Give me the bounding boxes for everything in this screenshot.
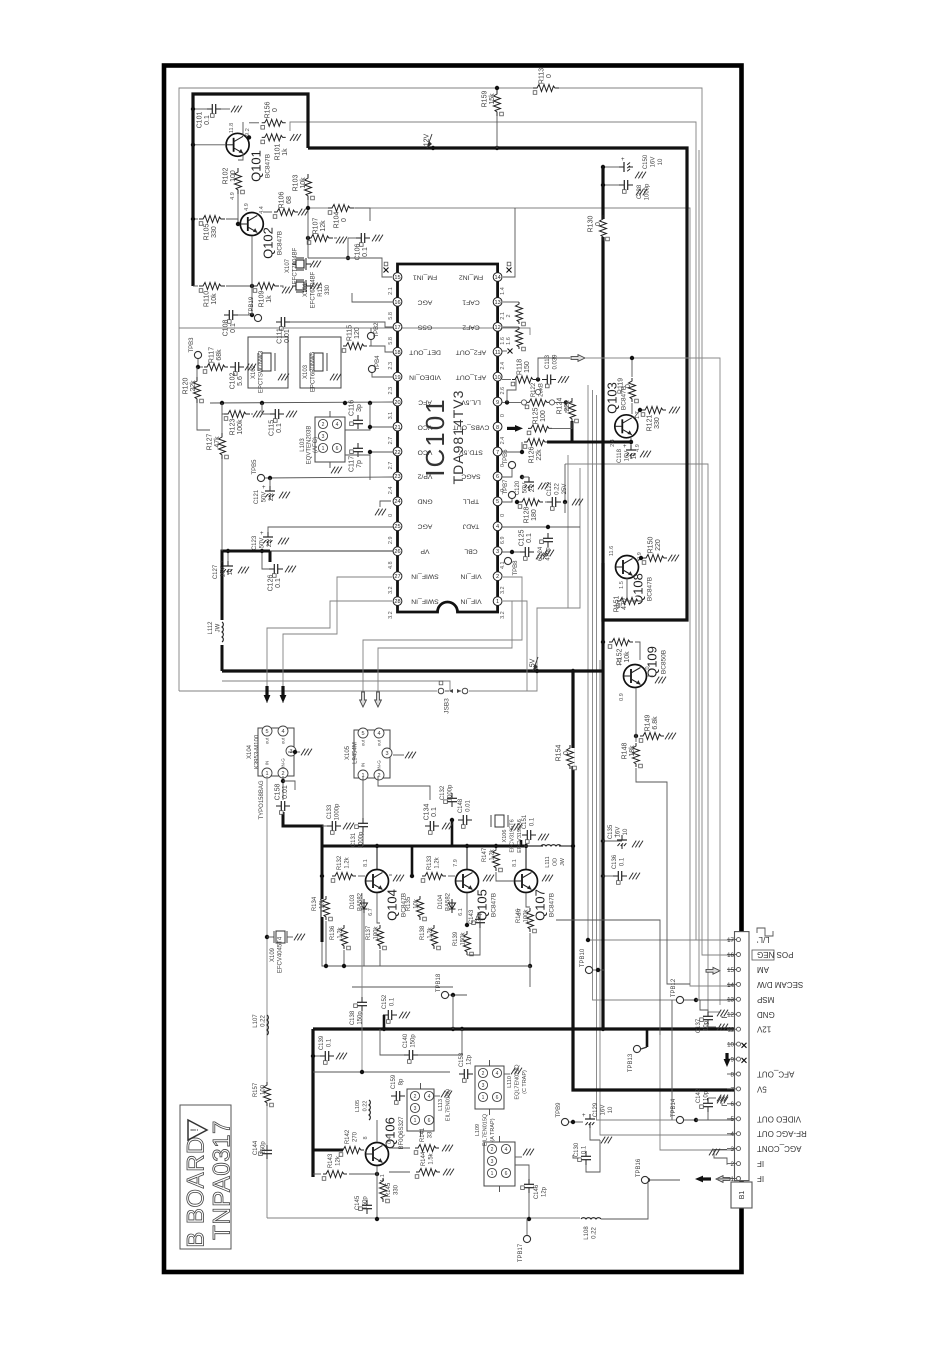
svg-text:R107: R107	[313, 218, 320, 235]
resistor R134 10k	[322, 899, 331, 917]
svg-text:R126: R126	[529, 447, 536, 464]
IC101 pin 8 CVBS_OUT	[493, 422, 502, 431]
capacitor C130 0.1	[585, 1151, 587, 1156]
svg-text:330: 330	[654, 417, 661, 429]
svg-text:R104: R104	[334, 212, 341, 229]
svg-text:22p: 22p	[476, 911, 482, 922]
svg-text:BC850B: BC850B	[661, 650, 668, 674]
IC101 pin 22 VCO	[393, 447, 402, 456]
svg-text:21: 21	[394, 425, 400, 431]
svg-text:C140: C140	[403, 1033, 409, 1048]
svg-text:B BOARD: B BOARD	[183, 1136, 210, 1248]
svg-text:C151: C151	[522, 814, 528, 829]
svg-text:2.4: 2.4	[500, 437, 506, 445]
wire SWIF pin28 loop	[267, 601, 392, 703]
svg-text:0.22: 0.22	[260, 1015, 266, 1027]
capacitor C125 0.1	[520, 551, 525, 553]
resistor R133 1.2k	[425, 872, 443, 881]
svg-text:1.5: 1.5	[617, 658, 623, 666]
resistor R121 330	[645, 406, 663, 415]
filter X102 EPCTSW7NW3	[248, 337, 288, 388]
resistor R132 1.2k	[335, 872, 353, 881]
svg-text:1.2k: 1.2k	[434, 856, 440, 868]
svg-text:2.2: 2.2	[530, 483, 536, 492]
svg-text:5.8: 5.8	[388, 337, 394, 345]
title block B BOARD TNPA0317	[180, 1105, 231, 1249]
wire to FM_IN1	[308, 258, 392, 277]
bus junction dots	[601, 1027, 605, 1031]
svg-text:R150: R150	[648, 537, 655, 554]
svg-text:TPB10: TPB10	[580, 948, 586, 967]
svg-text:STD.5V: STD.5V	[459, 449, 483, 456]
svg-text:2.4: 2.4	[388, 487, 394, 495]
svg-text:1k: 1k	[266, 295, 273, 303]
svg-text:EIL7EN015Q: EIL7EN015Q	[482, 1113, 488, 1146]
wire pin3 AGC_CONT line	[660, 1035, 734, 1150]
resistor R125 100	[531, 424, 549, 433]
svg-text:2.2: 2.2	[267, 538, 273, 547]
svg-text:12: 12	[494, 325, 500, 331]
svg-text:33: 33	[427, 1131, 433, 1138]
svg-text:1.2k: 1.2k	[337, 926, 343, 938]
svg-text:+: +	[260, 531, 264, 537]
arrow into pin9	[724, 1059, 731, 1067]
svg-text:L109: L109	[475, 1124, 481, 1136]
capacitor C102 5.6	[230, 366, 235, 368]
svg-text:R109: R109	[259, 291, 266, 308]
wire L108 to TPB16	[601, 1180, 648, 1219]
svg-text:TPB19: TPB19	[249, 296, 255, 315]
X104 ground pin3	[288, 751, 300, 753]
diode D103 BA582	[363, 899, 365, 913]
arrows to pin1 IF	[695, 1176, 703, 1183]
svg-text:R127: R127	[207, 434, 214, 451]
svg-text:0.1: 0.1	[362, 247, 369, 257]
resistor R135 10k	[416, 899, 425, 917]
thick rail from C150 to Q108	[601, 167, 604, 620]
capacitor C151 0.1	[522, 834, 527, 836]
inductor L111	[524, 845, 543, 847]
svg-text:0.22: 0.22	[591, 1227, 597, 1239]
wire y208 loop	[308, 208, 734, 986]
capacitor C133 1000p	[327, 825, 332, 827]
svg-text:R124: R124	[557, 398, 564, 415]
svg-text:6: 6	[336, 446, 339, 452]
svg-text:10k: 10k	[300, 177, 307, 189]
svg-text:8p: 8p	[398, 1078, 404, 1085]
svg-text:15: 15	[394, 275, 400, 281]
svg-text:0.9: 0.9	[619, 693, 625, 701]
svg-text:R159: R159	[482, 91, 489, 108]
wire X104 pin1 chain down	[266, 776, 268, 1218]
svg-text:1000p: 1000p	[358, 831, 364, 848]
connector pin 10	[727, 1043, 737, 1045]
ground at pin3 boxed	[714, 1150, 727, 1165]
capacitor C139 0.1	[320, 1055, 325, 1057]
svg-text:X104: X104	[247, 744, 253, 759]
test point TPB14	[676, 1116, 683, 1123]
svg-text:SWIF_IN: SWIF_IN	[411, 598, 439, 605]
svg-text:Q102: Q102	[261, 227, 276, 259]
svg-text:8.1: 8.1	[512, 859, 518, 867]
resistor R119 0	[628, 381, 637, 399]
signal arrows into X104	[264, 695, 271, 703]
IC101 pin 25 AGC	[393, 522, 402, 531]
svg-text:4.9: 4.9	[635, 444, 641, 452]
svg-text:C108: C108	[223, 320, 230, 337]
svg-text:7: 7	[731, 1086, 735, 1093]
ground R107 right	[336, 237, 340, 244]
svg-text:L107: L107	[253, 1014, 259, 1028]
svg-text:15: 15	[727, 967, 734, 974]
wire jumper line y691	[179, 690, 437, 692]
IC101 pin 15 FM_IN1	[393, 273, 402, 282]
svg-text:R148: R148	[622, 743, 629, 760]
svg-text:R141: R141	[420, 1127, 426, 1142]
svg-text:0.1: 0.1	[581, 1145, 587, 1154]
svg-text:16V: 16V	[220, 567, 226, 578]
wire VIF pin2 loop	[363, 577, 522, 707]
svg-text:C130: C130	[574, 1142, 580, 1157]
transistor Q105	[456, 870, 479, 893]
svg-text:TPB7: TPB7	[503, 479, 509, 495]
svg-text:R154: R154	[556, 745, 563, 762]
resistor R146 100k	[526, 911, 535, 929]
svg-text:4: 4	[496, 524, 499, 530]
svg-text:22: 22	[394, 450, 400, 456]
filter X109 EFCV4045T4	[265, 935, 269, 939]
svg-text:0.22: 0.22	[554, 483, 560, 495]
svg-text:5V: 5V	[756, 1084, 766, 1093]
svg-text:!: !	[189, 1128, 201, 1131]
capacitor C143 22p	[479, 914, 481, 919]
svg-text:BC847B: BC847B	[491, 893, 498, 917]
ground at pin12	[717, 1010, 721, 1017]
IC101 pin 16 AGC	[393, 298, 402, 307]
svg-text:22k: 22k	[190, 380, 197, 392]
svg-text:8: 8	[496, 425, 499, 431]
svg-text:3: 3	[385, 751, 388, 757]
svg-text:L112: L112	[208, 621, 214, 635]
svg-text:3: 3	[491, 1159, 494, 1165]
capacitor C127 16V 10 electrolytic	[227, 561, 229, 566]
svg-text:9: 9	[496, 400, 499, 406]
svg-text:10p: 10p	[703, 1020, 709, 1031]
svg-text:25V: 25V	[562, 484, 568, 495]
trap filter L109 EIL7EN015Q	[484, 1142, 515, 1186]
wire pin4 RF-AGC line	[600, 660, 734, 1135]
svg-text:8: 8	[731, 1071, 735, 1078]
svg-text:2.4: 2.4	[610, 439, 616, 447]
wire y403 to pin20 AFC	[210, 402, 393, 403]
svg-text:R136: R136	[330, 925, 336, 940]
svg-text:3: 3	[322, 434, 325, 440]
connector pin 5 VIDEO OUT	[727, 1118, 737, 1120]
svg-text:5: 5	[265, 729, 268, 735]
resistor R142 270	[343, 1146, 361, 1155]
svg-text:out: out	[265, 737, 270, 744]
svg-text:12p: 12p	[466, 1054, 472, 1065]
resistor R123 100k	[228, 410, 246, 419]
thick C158 branch	[283, 812, 322, 942]
wire C122 cluster loop	[567, 455, 569, 608]
svg-text:R134: R134	[312, 896, 318, 911]
svg-text:10: 10	[608, 1106, 614, 1113]
svg-text:R119: R119	[618, 378, 625, 394]
svg-text:1000p: 1000p	[334, 803, 340, 820]
svg-text:26: 26	[394, 549, 400, 555]
svg-text:R132: R132	[337, 855, 343, 870]
svg-text:C127: C127	[213, 564, 219, 579]
svg-text:1.2k: 1.2k	[489, 848, 495, 860]
svg-text:IN-G: IN-G	[377, 760, 382, 770]
resistor R104 0	[332, 204, 350, 213]
svg-text:0: 0	[341, 218, 348, 222]
svg-text:100: 100	[260, 1084, 266, 1095]
svg-text:150p: 150p	[362, 1196, 368, 1210]
svg-text:C142: C142	[696, 1088, 702, 1103]
capacitor pin13 CAF1 network	[503, 301, 519, 303]
svg-text:OD: OD	[552, 858, 558, 866]
svg-text:TNPA0317: TNPA0317	[209, 1120, 236, 1240]
svg-text:23: 23	[394, 474, 400, 480]
capacitor C145 150p	[366, 1200, 368, 1205]
wire mid bundle x588	[587, 385, 589, 940]
svg-text:1.6: 1.6	[506, 337, 512, 345]
filter X101 EFCT6504BF	[292, 285, 296, 287]
IC101 pin 3 CBL	[493, 547, 502, 556]
svg-text:0: 0	[645, 666, 651, 669]
svg-text:10: 10	[228, 568, 234, 575]
svg-text:24: 24	[394, 499, 400, 505]
svg-text:2.3: 2.3	[388, 387, 394, 395]
svg-text:CAF2: CAF2	[462, 324, 480, 331]
svg-text:IN: IN	[265, 761, 270, 766]
test point TPB6	[508, 461, 515, 468]
svg-text:BC847B: BC847B	[265, 154, 272, 178]
wire Q107 collector to bus	[525, 846, 527, 870]
svg-text:C118: C118	[617, 448, 623, 463]
svg-text:C135: C135	[608, 824, 614, 839]
svg-text:2: 2	[414, 1094, 417, 1100]
svg-text:0.1: 0.1	[431, 807, 438, 817]
connector pin 11 12V	[727, 1028, 737, 1030]
capacitor C118 16V 10 electrolytic	[630, 445, 632, 450]
svg-text:0.1: 0.1	[389, 997, 395, 1006]
svg-text:C123: C123	[252, 535, 258, 550]
svg-text:4.8: 4.8	[388, 561, 394, 569]
svg-text:IF: IF	[757, 1159, 764, 1168]
svg-text:50V: 50V	[261, 492, 267, 503]
svg-text:VP: VP	[420, 548, 430, 555]
svg-text:330: 330	[393, 1184, 399, 1195]
svg-text:150p: 150p	[410, 1034, 416, 1048]
svg-text:10p: 10p	[703, 1090, 709, 1101]
inductor L107 0.22	[267, 1015, 268, 1035]
svg-text:11.6: 11.6	[609, 546, 615, 556]
capacitor C106 0.1	[356, 237, 361, 239]
svg-text:L110: L110	[507, 1076, 513, 1088]
svg-text:VIF_IN: VIF_IN	[460, 598, 481, 605]
svg-text:R156: R156	[265, 102, 272, 119]
svg-text:TPLL: TPLL	[463, 498, 479, 505]
resistor R120 22k	[193, 381, 202, 399]
svg-text:X106: X106	[502, 830, 508, 843]
svg-text:C102: C102	[230, 373, 237, 390]
wire pin19 VIDEO_IN stub	[372, 373, 393, 377]
svg-text:5: 5	[361, 731, 364, 737]
svg-text:X107: X107	[285, 258, 291, 273]
svg-text:AF1_OUT: AF1_OUT	[456, 374, 487, 381]
resistor R151 470	[620, 597, 638, 606]
svg-text:18k: 18k	[629, 745, 636, 757]
svg-text:R123: R123	[230, 419, 237, 436]
svg-text:(AFC): (AFC)	[313, 437, 319, 453]
svg-text:0: 0	[625, 384, 632, 388]
connector pin 15 AM	[727, 969, 737, 971]
svg-text:6.7: 6.7	[368, 908, 374, 916]
svg-text:12p: 12p	[541, 1186, 547, 1197]
resistor R156 0	[265, 118, 283, 127]
transistor Q106	[366, 1143, 389, 1166]
resistor R118 150	[515, 375, 533, 384]
svg-text:C131: C131	[351, 832, 357, 847]
wire inner frame left + y88 loop with corner	[179, 88, 734, 955]
svg-text:out: out	[377, 739, 382, 746]
thick TPB13 stub	[646, 1029, 649, 1047]
diode D104 BA582	[451, 899, 453, 913]
capacitor C132 1000p	[451, 793, 453, 798]
svg-text:R130: R130	[588, 216, 595, 233]
svg-text:14: 14	[494, 275, 500, 281]
capacitor C137 10p	[707, 1011, 709, 1016]
svg-text:TPB2: TPB2	[374, 322, 380, 338]
svg-text:1.5k: 1.5k	[428, 1152, 434, 1164]
resistor R144 1.5k	[419, 1168, 437, 1177]
svg-text:220: 220	[655, 539, 662, 551]
wire y328 section line	[179, 328, 530, 335]
IC101 TDA9814TV3 body	[398, 264, 498, 612]
svg-text:0.1: 0.1	[529, 817, 535, 826]
svg-text:R149: R149	[645, 715, 652, 732]
resistor R107 12k	[311, 234, 329, 243]
svg-text:10k: 10k	[211, 293, 218, 305]
transistor Q101	[226, 133, 249, 156]
svg-text:JW: JW	[215, 623, 221, 632]
svg-text:12k: 12k	[335, 1155, 341, 1166]
svg-text:2.6: 2.6	[500, 387, 506, 395]
svg-text:6.9: 6.9	[500, 536, 506, 544]
svg-text:6: 6	[428, 1118, 431, 1124]
capacitor C150 16V 10 electrolytic	[619, 166, 624, 168]
test point TPB5	[257, 474, 264, 481]
svg-text:C148: C148	[458, 798, 464, 813]
svg-text:0.1: 0.1	[230, 323, 237, 333]
capacitor C120 50V 2.2 electrolytic	[528, 477, 530, 482]
svg-text:6: 6	[731, 1101, 735, 1108]
svg-text:330: 330	[211, 226, 218, 238]
test point TPB17	[523, 1235, 530, 1242]
svg-text:FM_IN2: FM_IN2	[459, 274, 483, 281]
svg-text:C159: C159	[391, 1074, 397, 1089]
svg-text:C129: C129	[593, 1102, 599, 1117]
svg-text:TPB4: TPB4	[375, 355, 381, 371]
svg-text:L105: L105	[355, 1100, 361, 1112]
filter X103 EPCT6R0NW5	[300, 337, 341, 388]
svg-text:1k: 1k	[282, 148, 289, 156]
wire y1072 row	[313, 1071, 450, 1073]
svg-text:150p: 150p	[260, 1141, 266, 1155]
resistor R154 0	[566, 748, 575, 766]
resistor R149 6.8k	[643, 732, 661, 741]
svg-text:FM_IN1: FM_IN1	[413, 274, 437, 281]
svg-text:R105: R105	[204, 224, 211, 241]
filter X107 EFCT7004BF	[292, 263, 296, 265]
svg-text:TPB13: TPB13	[628, 1053, 634, 1072]
wire pin14 FM_IN2	[503, 208, 515, 277]
wire pin17 GSS stub	[310, 322, 393, 327]
svg-text:12V: 12V	[756, 1025, 771, 1034]
test point TPB19	[254, 314, 261, 321]
svg-text:RF-AGC OUT: RF-AGC OUT	[757, 1129, 807, 1138]
svg-text:TPB9: TPB9	[556, 1102, 562, 1118]
svg-text:C153: C153	[459, 1052, 465, 1067]
svg-text:1.2k: 1.2k	[344, 856, 350, 868]
svg-text:0.22: 0.22	[362, 1101, 368, 1112]
IC101 pin 9 L/L.5V	[493, 397, 502, 406]
test point TPB3	[194, 351, 201, 358]
svg-text:150p: 150p	[357, 1011, 363, 1025]
svg-text:C113: C113	[545, 354, 551, 369]
svg-text:C144: C144	[253, 1140, 259, 1155]
signal arrows into X105	[360, 692, 367, 707]
svg-text:2.7: 2.7	[388, 462, 394, 470]
svg-text:R145: R145	[386, 1182, 392, 1197]
wire VIF pin1 loop	[503, 601, 527, 691]
transistor Q107	[515, 870, 538, 893]
resistor R145 330	[379, 1181, 388, 1199]
svg-text:0.039: 0.039	[552, 354, 558, 370]
svg-text:16V: 16V	[600, 1105, 606, 1116]
resistor R101 1k	[265, 133, 283, 142]
svg-text:BC847B: BC847B	[549, 893, 556, 917]
svg-text:TPB16: TPB16	[636, 1158, 642, 1177]
svg-text:0.1: 0.1	[204, 115, 211, 125]
svg-text:BA582: BA582	[445, 892, 451, 911]
resistor R147 1.2k	[492, 850, 501, 868]
IC101 pin 18 DET_OUT	[393, 347, 402, 356]
SAW filter X104 K3953-M100	[258, 728, 294, 776]
svg-text:180: 180	[531, 509, 538, 521]
svg-text:R106: R106	[279, 192, 286, 209]
svg-text:R142: R142	[345, 1129, 351, 1144]
svg-text:out: out	[281, 737, 286, 744]
svg-text:270: 270	[352, 1131, 358, 1142]
connector pin 9	[727, 1058, 737, 1060]
svg-text:C158: C158	[275, 784, 282, 801]
svg-text:4: 4	[377, 731, 380, 737]
thick rail Q103 base feed	[547, 441, 633, 444]
wire Q104 collector to bus	[376, 846, 378, 870]
svg-text:150: 150	[524, 361, 531, 373]
svg-text:4.4: 4.4	[259, 206, 265, 214]
svg-text:R146: R146	[516, 908, 522, 923]
trap filter L110 EQL7EN022Q	[475, 1066, 504, 1109]
connector pin 4 RF-AGC OUT	[727, 1133, 737, 1135]
AFC filter L103 EQVTEN203B	[315, 417, 345, 462]
svg-text:0.4: 0.4	[387, 1136, 393, 1144]
resistor R138 1.2k	[430, 928, 439, 946]
